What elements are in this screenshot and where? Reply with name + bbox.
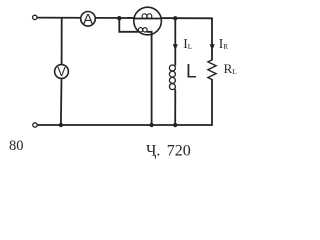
svg-text:720: 720: [167, 142, 191, 159]
node junction bottom wattmeter: [149, 123, 153, 127]
svg-text:IL: IL: [183, 36, 192, 51]
svg-text:IR: IR: [219, 36, 229, 51]
terminal bottom-left: [33, 123, 37, 127]
wire voltmeter branch lower: [60, 78, 63, 125]
ammeter A1 circle: [81, 11, 96, 26]
wire right branch upper: [211, 18, 213, 60]
terminal top-left: [33, 15, 37, 19]
wire right branch lower: [211, 80, 213, 125]
wattmeter voltage coil down wire: [147, 32, 151, 125]
wattmeter current coil loops: [142, 14, 152, 19]
wattmeter W1 circle: [134, 7, 162, 35]
node junction bottom inductor: [173, 123, 177, 127]
wattmeter voltage coil loops: [138, 28, 147, 32]
arrow current IL down: [173, 44, 178, 50]
svg-text:L: L: [186, 61, 197, 82]
node junction top wattmeter tap: [117, 16, 121, 20]
wire bottom rail: [37, 124, 212, 126]
resistor RL zigzag: [208, 60, 216, 80]
svg-text:V: V: [57, 65, 66, 79]
svg-text:RL: RL: [224, 61, 238, 76]
node junction bottom voltmeter: [59, 123, 63, 127]
arrow current IR down: [210, 44, 215, 50]
svg-text:Ҷ.: Ҷ.: [146, 142, 160, 159]
wire top rail: [37, 17, 212, 20]
voltmeter V1 circle: [55, 65, 69, 79]
svg-text:80: 80: [9, 138, 24, 154]
node junction top inductor tap: [173, 16, 177, 20]
wire inductor branch lower: [174, 90, 176, 125]
inductor L coil loops: [169, 65, 175, 90]
wattmeter voltage coil branch wire: [119, 18, 138, 32]
wattmeter current coil wire: [134, 18, 161, 20]
wire inductor branch upper: [174, 18, 176, 65]
svg-text:A: A: [83, 11, 93, 28]
wire voltmeter branch upper: [61, 18, 63, 65]
